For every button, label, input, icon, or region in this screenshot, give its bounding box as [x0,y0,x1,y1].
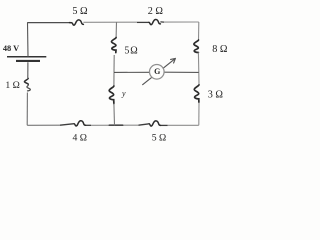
wire left upper segment [27,23,30,57]
wire 4ohm left lead [60,124,74,126]
resistor R 8ohm [194,40,199,53]
wire 2ohm left lead [137,21,149,23]
wire right between G and 3ohm [198,72,200,84]
wire bottom-middle segment [91,124,139,126]
svg-text:5 Ω: 5 Ω [152,132,166,143]
svg-text:5 Ω: 5 Ω [124,45,137,56]
battery 48V long plate [7,56,46,58]
wire top-middle segment [83,21,137,23]
galvanometer arrowhead [171,58,176,63]
svg-text:1 Ω: 1 Ω [5,80,19,91]
wire right middle segment [197,53,199,73]
svg-text:48 V: 48 V [3,44,19,53]
wire middle branch lower-mid [113,72,115,86]
wire left between battery and 1ohm [27,62,29,78]
resistor R 1ohm [24,78,30,91]
galvanometer arrow shaft [142,58,175,85]
wire top-left segment [27,22,69,24]
galvanometer G circle [150,65,165,80]
battery 48V short plate [16,60,40,62]
svg-text:y: y [121,89,126,98]
wire left lower segment [26,93,28,126]
svg-text:5 Ω: 5 Ω [72,6,88,17]
junction node at middle branch bottom [109,124,124,126]
resistor R 5ohm top [70,20,84,25]
wire galvanometer right [164,71,199,73]
wire right upper segment [198,22,200,40]
wire right lower segment [198,103,200,126]
wire 5ohm bottom left lead [139,124,150,125]
resistor R 5ohm middle [111,38,116,53]
svg-text:G: G [154,67,160,76]
wire bottom-left segment [27,124,60,126]
resistor R 2ohm top [149,19,160,24]
wire bottom-right segment [168,124,199,126]
wire 4ohm right lead [86,124,92,126]
resistor R y [109,86,114,104]
svg-text:8 Ω: 8 Ω [212,44,228,55]
wire middle branch top [115,22,117,38]
wire middle branch upper-mid [113,55,115,72]
wire middle branch bottom [113,104,116,126]
svg-text:3 Ω: 3 Ω [208,89,224,100]
wire 5ohm bottom right lead [161,124,168,126]
wire galvanometer left [114,71,150,73]
svg-text:2 Ω: 2 Ω [148,6,164,17]
svg-text:4 Ω: 4 Ω [72,132,86,143]
wire 2ohm right lead [160,21,164,23]
resistor R 3ohm [194,85,199,103]
resistor R 4ohm [74,121,85,126]
resistor R 5ohm bottom [149,121,160,126]
wire top-right segment [164,21,199,23]
resistor R 1ohm dark wedge [25,79,29,85]
